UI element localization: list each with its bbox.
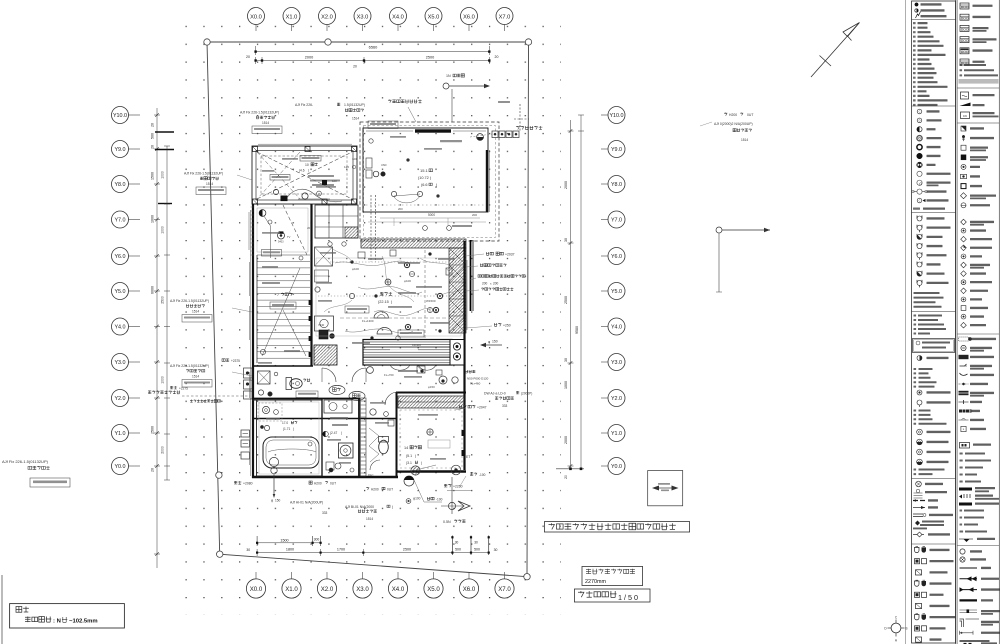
- svg-text:2000: 2000: [564, 181, 568, 189]
- svg-text:150: 150: [275, 499, 281, 503]
- svg-text:AJf Hi-01 N/A(200UP): AJf Hi-01 N/A(200UP): [290, 501, 323, 505]
- svg-text:~102.5mm: ~102.5mm: [69, 619, 98, 625]
- label tenkenkou 2line: [478, 275, 525, 278]
- svg-text:0.5N: 0.5N: [443, 520, 451, 524]
- legend meter rows: [961, 92, 969, 99]
- legend diamond rows: [961, 219, 967, 225]
- counter label: [390, 349, 418, 351]
- svg-text:Y0.0: Y0.0: [611, 464, 622, 470]
- svg-text:AJf Fix 226-1.5(01132UP): AJf Fix 226-1.5(01132UP): [240, 111, 279, 115]
- svg-text:9580: 9580: [575, 326, 579, 334]
- label pair A6 bottom: [358, 510, 377, 513]
- svg-text:): ): [341, 431, 342, 435]
- void room cross bracing dashed: [257, 152, 352, 199]
- svg-text:RAC: RAC: [368, 473, 374, 477]
- grid axis Y0.0 left: [128, 465, 140, 467]
- svg-text:300: 300: [314, 538, 320, 542]
- svg-text:(2000P): (2000P): [521, 392, 532, 396]
- svg-text:AJf Fix 226-1.5(01132UP): AJf Fix 226-1.5(01132UP): [2, 459, 49, 464]
- closet hatch small: [345, 227, 358, 238]
- bottom dimension row 1: [257, 542, 321, 544]
- wall left of bedroom: [396, 392, 398, 477]
- dome symbol hall: [374, 312, 388, 318]
- washroom east wall: [358, 398, 360, 477]
- svg-text:X6.0: X6.0: [463, 14, 475, 20]
- left outside porch boxes: [244, 368, 253, 378]
- svg-text:30: 30: [455, 541, 459, 545]
- svg-text:(2.47: (2.47: [330, 431, 337, 435]
- void room extra labels: [282, 158, 298, 160]
- grid axis X4 bottom: [397, 572, 399, 579]
- svg-text:AJf Bi-01 N/A(2000: AJf Bi-01 N/A(2000: [345, 505, 374, 509]
- svg-text:1514: 1514: [262, 121, 269, 125]
- svg-text:Y10.0: Y10.0: [609, 113, 623, 119]
- label tsunagi 2260: [444, 484, 451, 487]
- legend phone rows: [917, 390, 922, 395]
- svg-text:Y3.0: Y3.0: [611, 360, 622, 366]
- legend code rows mid: [914, 315, 917, 317]
- svg-text:2500: 2500: [151, 426, 155, 434]
- wall top of bedroom: [396, 392, 466, 394]
- svg-text:(6.6: (6.6: [421, 183, 428, 187]
- svg-text:1000: 1000: [161, 226, 165, 234]
- svg-text:X0.0: X0.0: [250, 586, 263, 593]
- svg-text:Y4.0: Y4.0: [114, 325, 125, 331]
- grid axis Y8.0 right: [601, 183, 608, 185]
- svg-text:X4.0: X4.0: [392, 14, 404, 20]
- svg-text:30: 30: [564, 238, 568, 242]
- closet shelving grid: [315, 205, 358, 238]
- legend remocon notes: [960, 64, 963, 66]
- svg-text:): ): [293, 427, 294, 431]
- svg-text:-100: -100: [436, 498, 443, 502]
- hall small fixtures: [358, 252, 365, 258]
- grid axis Y6.0 left: [128, 255, 140, 257]
- svg-text:30: 30: [564, 358, 568, 362]
- svg-text:Y9.0: Y9.0: [114, 147, 125, 153]
- legend pillar circle rows: [960, 549, 965, 554]
- svg-text:Y6.0: Y6.0: [611, 254, 622, 260]
- label bouka 2047: [459, 405, 466, 408]
- legend oil tank row: [960, 443, 970, 449]
- svg-text:): ): [415, 454, 416, 458]
- svg-text:X6.0: X6.0: [463, 586, 476, 593]
- label box lower: [262, 250, 282, 257]
- svg-text:120: 120: [332, 179, 337, 183]
- svg-text:Y0.0: Y0.0: [114, 464, 125, 470]
- bath extra: [266, 418, 280, 420]
- svg-text:X7.0: X7.0: [498, 586, 511, 593]
- svg-text:N50 P000 D120: N50 P000 D120: [467, 377, 489, 381]
- svg-text:2000: 2000: [305, 56, 313, 60]
- dashed service lines: [370, 195, 372, 262]
- svg-text:20: 20: [307, 226, 311, 230]
- svg-text:2500: 2500: [426, 56, 434, 60]
- svg-text:AJf Fix 226-1.5(01132UP): AJf Fix 226-1.5(01132UP): [184, 172, 223, 176]
- svg-text:φ100: φ100: [404, 279, 411, 283]
- grid axis Y9.0 right: [601, 148, 608, 150]
- shita-waku label top: [388, 100, 422, 104]
- legend line triangle row: [959, 538, 973, 540]
- void room walls double line: [252, 146, 357, 204]
- hatched wall band upper: [361, 239, 466, 248]
- svg-text:X3.0: X3.0: [356, 586, 369, 593]
- grid axis X0 bottom: [255, 572, 257, 579]
- grid axis Y2.0 left: [128, 397, 140, 399]
- boxed small labels hall: [345, 306, 369, 313]
- ceiling fixture circle: [278, 232, 285, 239]
- corridor zigzag dashed: [369, 428, 379, 462]
- hall dashed wiring runs: [424, 250, 426, 338]
- phi150 arrow right side: [480, 343, 486, 347]
- svg-text:Y5.0: Y5.0: [114, 289, 125, 295]
- top right squares leader dash: [470, 134, 492, 137]
- label tsunagi -100: [470, 473, 477, 476]
- svg-text:USD: USD: [381, 163, 387, 167]
- svg-text:200: 200: [482, 282, 488, 286]
- sink arcs below counter: [390, 365, 410, 370]
- left dim bold extent ticks: [155, 131, 174, 133]
- legend rule: [912, 19, 956, 21]
- ceiling height box: [582, 567, 643, 586]
- svg-text:+2260: +2260: [453, 485, 463, 489]
- svg-text:X2.0: X2.0: [321, 14, 333, 20]
- svg-text:): ): [421, 461, 422, 465]
- washing machine: [339, 443, 354, 458]
- svg-text:D: D: [919, 119, 921, 123]
- arrow and line mid right: [716, 227, 722, 233]
- label bouka 2037: [486, 252, 493, 255]
- window double line left upper: [248, 212, 250, 250]
- svg-text:X2.0: X2.0: [321, 586, 334, 593]
- svg-text:200: 200: [493, 282, 499, 286]
- kitchen appliance boxes: [315, 247, 333, 266]
- svg-text:Y5.0: Y5.0: [611, 289, 622, 295]
- grid axis Y6.0 right: [601, 255, 608, 257]
- svg-text:AJf Fix 226-1.5(01132UP): AJf Fix 226-1.5(01132UP): [170, 299, 209, 303]
- grid axis Y5.0 right: [601, 290, 608, 292]
- legend vent rows left: [916, 481, 922, 487]
- svg-text:2500: 2500: [403, 548, 411, 552]
- svg-text:7: 7: [277, 293, 279, 297]
- bedroom door gap: [398, 469, 412, 471]
- svg-text:φ150: φ150: [428, 385, 435, 389]
- svg-text:1/50: 1/50: [618, 593, 640, 602]
- svg-text:Y6.0: Y6.0: [114, 254, 125, 260]
- left dimension line outer: [156, 108, 158, 568]
- grid axis Y2.0 right: [601, 397, 608, 399]
- svg-text:5403: 5403: [278, 241, 284, 244]
- void room inner dashed line: [261, 156, 347, 194]
- grid axis Y7.0 left: [128, 219, 140, 221]
- grid axis X3 bottom: [362, 572, 364, 579]
- svg-text:Y7.0: Y7.0: [611, 218, 622, 224]
- svg-text:H200: H200: [371, 488, 379, 492]
- connection start label: [516, 126, 542, 130]
- right exterior wall: [463, 241, 465, 470]
- svg-text:30: 30: [494, 548, 498, 552]
- svg-text:200: 200: [398, 207, 403, 211]
- svg-text:X5.0: X5.0: [428, 14, 440, 20]
- room 15.1 right wall thick: [486, 150, 488, 212]
- svg-text:): ): [308, 169, 309, 173]
- toilet partition: [252, 399, 311, 401]
- legend outlet notes: [914, 292, 940, 294]
- svg-text:10: 10: [305, 163, 309, 167]
- legend outlet rows: [917, 216, 922, 221]
- room 15.1 interior dots grid visible - ceiling dashed: [366, 204, 486, 206]
- legend rule r3: [957, 333, 999, 335]
- room15 window marks right: [489, 150, 491, 212]
- balcony dim marks: [368, 221, 486, 223]
- left wall window doubles: [249, 262, 251, 296]
- svg-text:(22.15: (22.15: [378, 300, 389, 304]
- svg-text:1500: 1500: [280, 538, 288, 542]
- sheet edge line bottom-left: [1, 575, 3, 644]
- right lower block outer wall: [465, 370, 475, 373]
- legend rule r4: [957, 545, 999, 547]
- svg-text:1514: 1514: [352, 117, 359, 121]
- label H200 under B: [366, 487, 369, 490]
- grid axis Y9.0 left: [128, 148, 140, 150]
- svg-text:120: 120: [352, 157, 357, 161]
- grid axis X2 bottom: [326, 572, 328, 579]
- grid axis X3 top: [362, 25, 364, 32]
- svg-text:333: 333: [322, 511, 328, 515]
- svg-text:X4.0: X4.0: [392, 586, 405, 593]
- svg-text:Y9.0: Y9.0: [611, 147, 622, 153]
- legend aircon rows: [917, 429, 923, 435]
- leader polylines bottom right: [414, 480, 442, 502]
- void room note cluster: [308, 175, 334, 177]
- legend left column border: [912, 1, 956, 643]
- oval tokuchu labels: [329, 385, 345, 394]
- svg-text:14: 14: [404, 446, 408, 450]
- plan title box: [574, 589, 650, 602]
- svg-text:500: 500: [474, 548, 480, 552]
- bathtub: [263, 437, 319, 468]
- bath shower dashed box: [258, 403, 282, 421]
- void room window line: [258, 143, 352, 145]
- stairs guide diagonal: [262, 268, 300, 356]
- left leader lines: [237, 175, 252, 180]
- ceiling label small: [440, 140, 462, 142]
- room15 extra marks: [390, 136, 406, 138]
- hatched wall vertical right: [449, 248, 466, 333]
- hatched circle below bedroom: [411, 466, 420, 475]
- boundary corner marker: [524, 574, 530, 580]
- grid axis X5 bottom: [433, 572, 435, 579]
- small meter circle: [406, 499, 411, 504]
- grid axis Y10.0 left: [128, 114, 140, 116]
- legend banner rows: [959, 488, 972, 491]
- junction rings: [404, 262, 409, 267]
- svg-text:30: 30: [474, 541, 478, 545]
- svg-text:φ100: φ100: [352, 267, 359, 271]
- svg-text:5000: 5000: [428, 213, 435, 217]
- svg-text:Y1.0: Y1.0: [611, 431, 622, 437]
- wall above toilet: [252, 365, 313, 367]
- legend curtain rows: [959, 337, 969, 341]
- bottom wall washroom: [252, 476, 398, 478]
- top dimension line segments: [256, 60, 490, 62]
- toilet fixture: [290, 379, 302, 389]
- svg-text:2000: 2000: [161, 446, 165, 454]
- legend remocon rows: [960, 3, 969, 9]
- junction dots: [439, 330, 442, 333]
- grid axis Y3.0 left: [128, 361, 140, 363]
- legend distribution box: [913, 339, 955, 353]
- svg-text:20: 20: [353, 65, 357, 69]
- bottom dimension row 2: [257, 552, 489, 554]
- svg-text:FL+460: FL+460: [470, 382, 481, 386]
- svg-text:+2037: +2037: [505, 253, 515, 257]
- svg-text:+2375: +2375: [231, 359, 240, 363]
- svg-text:KD400: KD400: [412, 343, 421, 347]
- room between void and stairs half-circle: [259, 210, 266, 217]
- svg-text:H200: H200: [314, 482, 322, 486]
- legend lamp circle rows: [917, 109, 922, 114]
- svg-text:X1.0: X1.0: [285, 586, 298, 593]
- svg-text:+2047: +2047: [477, 406, 487, 410]
- counter left hatch block: [314, 345, 337, 365]
- svg-text:FL+700: FL+700: [384, 373, 394, 377]
- svg-text:2000: 2000: [564, 436, 568, 444]
- grid axis Y1.0 left: [128, 432, 140, 434]
- svg-text:φ: φ: [271, 499, 273, 503]
- towel ladder strip: [361, 398, 367, 476]
- compass rose bottom right: [891, 623, 901, 633]
- stair area small marks: [299, 256, 303, 260]
- dome symbol hall 2: [377, 328, 392, 335]
- svg-text:AJf Fix 226-1.5(01132UP): AJf Fix 226-1.5(01132UP): [170, 364, 209, 368]
- room 15.1 top window lines: [366, 130, 413, 132]
- washroom counter: [324, 400, 352, 413]
- svg-text:1N: 1N: [446, 74, 451, 78]
- svg-text:ET: ET: [466, 455, 470, 459]
- svg-text:X1.0: X1.0: [286, 14, 298, 20]
- svg-text:1514: 1514: [192, 310, 199, 314]
- bottom wall bedroom: [396, 470, 466, 472]
- grid axis Y5.0 left: [128, 290, 140, 292]
- wall top of washroom row: [252, 398, 360, 400]
- svg-text:): ): [392, 505, 393, 509]
- svg-text:φ100: φ100: [413, 497, 421, 501]
- cooktop block: [450, 340, 464, 366]
- upper left room clutter: [262, 232, 280, 234]
- grid axis Y10.0 right: [601, 114, 608, 116]
- wall top of washroom: [252, 418, 396, 420]
- grid axis Y7.0 right: [601, 219, 608, 221]
- kitchen extra labels: [316, 282, 332, 284]
- room circuit label far left: [148, 391, 180, 394]
- corridor small circles: [370, 409, 376, 415]
- legend rule r1: [957, 87, 999, 89]
- label H200 under A: [309, 481, 312, 484]
- svg-text:FL+1300: FL+1300: [362, 319, 374, 323]
- legend bottom icon pair rows left: [915, 547, 920, 552]
- svg-text:0UT: 0UT: [330, 482, 336, 486]
- washroom label: [330, 417, 348, 419]
- right dimension line inner: [570, 120, 572, 469]
- stairs treads: [257, 254, 310, 256]
- svg-text:Y8.0: Y8.0: [611, 182, 622, 188]
- legend line-type rows: [960, 567, 978, 569]
- svg-text:1514: 1514: [741, 138, 748, 142]
- bedroom ceiling light: [427, 429, 433, 435]
- svg-text:(4.6: (4.6: [299, 169, 305, 173]
- tsunagi 2275 label: [170, 386, 177, 389]
- svg-text:1000: 1000: [151, 215, 155, 223]
- svg-text:Y3.0: Y3.0: [114, 360, 125, 366]
- svg-text:DW AJ-a LD-0: DW AJ-a LD-0: [484, 392, 506, 396]
- svg-text:1.5(01132UP): 1.5(01132UP): [344, 103, 365, 107]
- label tsunagi 2080: [234, 481, 241, 484]
- legend switch code list: [913, 22, 916, 24]
- legend rule r2: [957, 122, 999, 124]
- grid axis X7 top: [504, 25, 506, 32]
- grid axis X6 top: [468, 25, 470, 32]
- svg-text:2270mm: 2270mm: [585, 579, 606, 585]
- svg-text:1514: 1514: [192, 375, 199, 379]
- svg-text:20: 20: [564, 475, 568, 479]
- svg-text:X5.0: X5.0: [427, 586, 440, 593]
- svg-text:200: 200: [472, 213, 477, 217]
- grid axis Y3.0 right: [601, 361, 608, 363]
- svg-text:+2080: +2080: [243, 482, 253, 486]
- svg-text:15.1: 15.1: [420, 168, 429, 173]
- toilet room marks: [258, 390, 263, 395]
- grid axis X5 top: [433, 25, 435, 32]
- svg-text:1000: 1000: [161, 171, 165, 179]
- svg-text:17.0: 17.0: [282, 421, 288, 425]
- svg-text:(5.1: (5.1: [406, 454, 412, 458]
- label tsunagi -100 b: [427, 497, 434, 500]
- bath down arrow with phi150: [273, 474, 275, 494]
- legend right bottom note: [960, 640, 990, 642]
- void room arc curve: [286, 189, 342, 201]
- window lintel black bar: [415, 129, 451, 132]
- svg-text:20: 20: [246, 55, 250, 59]
- grid axis Y8.0 left: [128, 183, 140, 185]
- wiring squiggle curves: [335, 261, 407, 266]
- legend right edge: [998, 0, 1000, 644]
- left exterior wall: [252, 204, 254, 478]
- svg-text:Y8.0: Y8.0: [114, 182, 125, 188]
- svg-text:: N: : N: [53, 619, 61, 625]
- legend column divider: [955, 0, 957, 644]
- legend NCF notes: [960, 510, 963, 512]
- right top leader: [700, 122, 712, 126]
- wall mounted marks on central wall: [309, 300, 312, 305]
- svg-text:W1500: W1500: [426, 299, 436, 303]
- ceiling light symbols hall: [385, 279, 391, 285]
- left dimension line inner: [166, 146, 168, 480]
- svg-text:X3.0: X3.0: [357, 14, 369, 20]
- svg-text:120: 120: [344, 165, 349, 169]
- grid axis Y4.0 left: [128, 326, 140, 328]
- legend rule 3: [912, 212, 956, 214]
- right dimension end tick: [556, 468, 584, 470]
- thick double line right of wall: [470, 240, 472, 311]
- door arcs lower hall: [322, 368, 336, 382]
- boundary corner marker: [525, 39, 531, 45]
- svg-text:-100: -100: [479, 473, 486, 477]
- svg-text:20: 20: [495, 55, 499, 59]
- svg-text:20: 20: [151, 123, 155, 127]
- kitchen counter hatched: [363, 340, 452, 366]
- svg-text:(1.71: (1.71: [283, 427, 290, 431]
